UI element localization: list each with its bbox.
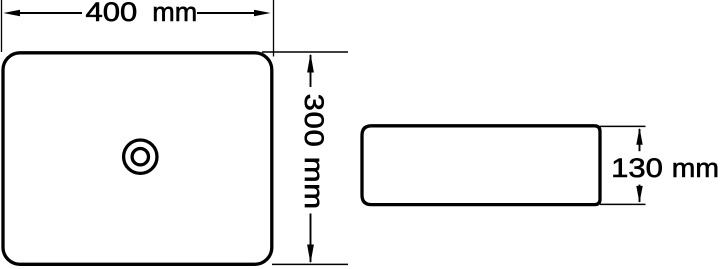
svg-text:300 mm: 300 mm xyxy=(299,94,329,210)
svg-text:400: 400 xyxy=(86,0,138,27)
svg-text:mm: mm xyxy=(152,0,197,27)
svg-text:130: 130 xyxy=(611,154,663,184)
svg-text:mm: mm xyxy=(672,152,719,182)
